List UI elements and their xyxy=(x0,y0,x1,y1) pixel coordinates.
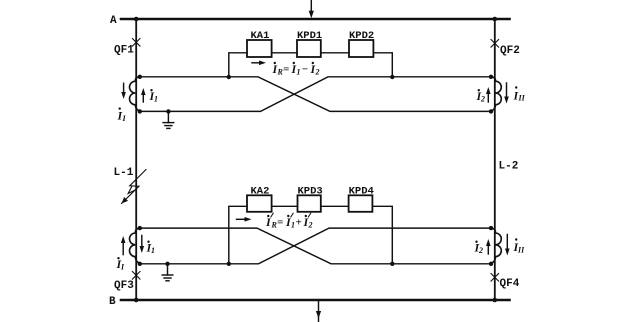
wire TA1 top tap crossing over to TA2 bottom tap xyxy=(140,77,491,112)
CT TA2 (top right) xyxy=(491,77,501,112)
busbar A xyxy=(121,18,510,21)
junction riser left / top wire xyxy=(227,75,231,79)
label I_I (top left) xyxy=(117,107,127,123)
svg-text:1: 1 xyxy=(151,246,155,255)
label I2 (bottom right) xyxy=(474,241,484,256)
svg-text:KPD3: KPD3 xyxy=(298,185,323,197)
arrow secondary current I1 up (top left) xyxy=(141,88,146,102)
arrow secondary current I2 up (bottom right) xyxy=(486,239,491,254)
wire KA2 to KPD3 xyxy=(272,205,298,207)
relay KPD4 xyxy=(349,195,373,212)
wire KPD4 to right riser xyxy=(372,206,392,263)
formula Ir = I1 - I2 (top) xyxy=(272,62,320,77)
arrow primary current I_I up (bottom left) xyxy=(121,236,126,255)
label I2 (top right) xyxy=(476,89,486,104)
svg-text:KPD1: KPD1 xyxy=(297,30,322,42)
fault bolt on L-1 xyxy=(122,170,147,204)
junction bus B / L-1 xyxy=(134,298,139,303)
arrow primary current I_I down (top left) xyxy=(121,83,126,99)
label I_I (bottom left) xyxy=(116,257,126,272)
junction riser right / top wire xyxy=(390,75,394,79)
wire line L-2 feeder xyxy=(494,19,496,300)
CT TA1 (top left) xyxy=(130,77,140,112)
breaker QF2 xyxy=(491,40,499,48)
wire KPD3 to KPD4 xyxy=(321,205,349,207)
svg-text:QF1: QF1 xyxy=(114,45,134,57)
label I_II (bottom right) xyxy=(513,238,526,254)
load arrow out of bus B xyxy=(316,301,321,322)
arrow primary current I_II down (top right) xyxy=(504,83,509,104)
wire TA3 top tap crossing over to TA4 bottom tap xyxy=(140,228,491,264)
junction bus B / L-2 xyxy=(493,298,498,303)
breaker QF4 xyxy=(491,274,499,282)
wire TA3 bottom tap crossing over to TA4 top tap xyxy=(140,228,491,264)
svg-text:L-1: L-1 xyxy=(114,167,134,179)
wire line L-1 feeder xyxy=(135,19,137,300)
svg-text:QF4: QF4 xyxy=(500,278,520,290)
svg-text:B: B xyxy=(109,296,116,308)
svg-text:2: 2 xyxy=(480,95,485,104)
svg-text:QF2: QF2 xyxy=(500,45,520,57)
svg-text:II: II xyxy=(517,246,525,255)
breaker QF1 xyxy=(132,39,140,47)
svg-text:+: + xyxy=(296,217,302,229)
ground (top secondary) xyxy=(163,109,174,128)
arrow relay current direction (top) xyxy=(252,61,266,66)
busbar B xyxy=(121,299,510,302)
svg-text:=: = xyxy=(283,64,289,76)
arrow relay current direction (bottom) xyxy=(237,217,252,222)
junction bus A / L-1 xyxy=(134,17,139,22)
relay KPD1 xyxy=(297,40,321,57)
svg-text:1: 1 xyxy=(154,95,158,104)
wire TA1 bottom tap crossing over to TA2 top tap xyxy=(140,77,491,112)
arrow secondary current I2 up (top right) xyxy=(486,87,491,102)
svg-text:−: − xyxy=(302,64,309,76)
CT TA4 (bottom right) xyxy=(491,228,501,264)
relay KA2 xyxy=(247,195,272,212)
svg-text:QF3: QF3 xyxy=(114,280,134,292)
svg-text:L-2: L-2 xyxy=(499,161,519,173)
relay KPD2 xyxy=(349,40,373,57)
svg-text:KA1: KA1 xyxy=(251,30,270,42)
svg-text:II: II xyxy=(518,94,526,103)
label I1 (top left) xyxy=(149,89,159,104)
arrow secondary current I1 down (bottom left) xyxy=(140,236,145,254)
svg-text:2: 2 xyxy=(478,246,483,255)
source arrow into bus A xyxy=(309,0,314,18)
svg-text:2: 2 xyxy=(308,221,313,230)
formula Ir' = I1' + I2' (bottom) xyxy=(265,213,313,229)
svg-text:KA2: KA2 xyxy=(251,185,270,197)
wire KPD1 to KPD2 xyxy=(321,52,349,54)
wire KPD2 to right riser xyxy=(373,53,392,77)
label I_II (top right) xyxy=(513,86,526,102)
arrow primary current I_II down (bottom right) xyxy=(505,235,510,256)
svg-text:2: 2 xyxy=(315,68,320,77)
wire left riser to KA2 xyxy=(229,206,247,263)
CT TA3 (bottom left) xyxy=(130,228,140,264)
svg-text:KPD4: KPD4 xyxy=(349,185,374,197)
junction bus A / L-2 xyxy=(493,17,498,22)
label I1 (bottom left) xyxy=(146,241,156,256)
svg-text:1: 1 xyxy=(297,68,301,77)
svg-text:=: = xyxy=(277,217,283,229)
relay KA1 xyxy=(247,40,272,57)
junction riser left / bottom wire xyxy=(227,262,231,266)
wire left riser to KA1 xyxy=(229,53,247,77)
svg-text:A: A xyxy=(110,15,117,27)
junction riser right / bottom wire xyxy=(390,262,394,266)
svg-text:KPD2: KPD2 xyxy=(349,30,374,42)
wire KA1 to KPD1 xyxy=(272,52,297,54)
ground (bottom secondary) xyxy=(162,262,173,281)
svg-text:1: 1 xyxy=(291,221,295,230)
breaker QF3 xyxy=(132,272,140,280)
relay KPD3 xyxy=(298,195,321,212)
